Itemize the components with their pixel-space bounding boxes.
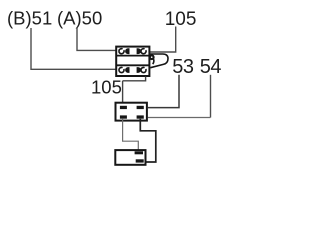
terminal lower xyxy=(136,159,144,162)
wire clip loop on connector right side xyxy=(150,55,154,64)
terminal bottom-left xyxy=(120,115,127,118)
terminal upper xyxy=(135,151,143,154)
wire from relay bottom-left terminal to lower block top terminal xyxy=(123,119,139,152)
terminal pin top-right xyxy=(137,48,141,54)
svg-text:(B)51: (B)51 xyxy=(7,8,52,29)
inner divider upper xyxy=(116,55,150,57)
terminal pin bottom-left xyxy=(125,67,129,73)
svg-text:54: 54 xyxy=(200,56,222,78)
wire leader from label 54 horizontal to relay block xyxy=(148,117,211,119)
wire boot on connector right side xyxy=(150,54,168,68)
wire from relay bottom-right terminal to lower block side terminal xyxy=(140,119,156,162)
wire from (B)51 to connector 105 pin B xyxy=(31,28,116,69)
terminal top-right xyxy=(137,106,144,109)
wire leader from label 105 top to connector right pin xyxy=(150,27,176,53)
inner divider lower xyxy=(116,64,150,66)
terminal pin bottom-right xyxy=(137,67,141,73)
terminal ring top-left xyxy=(119,49,124,54)
terminal top-left xyxy=(120,106,127,109)
wire from connector 105 lower-right pin to label 105 bottom and to junction block xyxy=(123,77,146,81)
connector 105 (main block) xyxy=(116,47,150,76)
terminal ring bottom-left xyxy=(119,67,124,72)
svg-text:105: 105 xyxy=(91,77,122,98)
lower block xyxy=(115,150,145,165)
terminal ring top-right xyxy=(141,49,146,54)
svg-text:(A)50: (A)50 xyxy=(57,8,102,29)
terminal bottom-right xyxy=(137,115,144,118)
wire junction drop to relay block xyxy=(122,81,124,106)
svg-text:105: 105 xyxy=(165,9,197,30)
wire from (A)50 to connector 105 pin A xyxy=(77,28,116,51)
svg-text:53: 53 xyxy=(172,56,194,78)
wire leader from label 54 vertical xyxy=(210,75,212,118)
terminal ring bottom-right xyxy=(141,67,146,72)
wire leader from label 53 to relay block xyxy=(148,75,179,108)
relay block (middle) xyxy=(116,103,147,121)
terminal pin top-left xyxy=(125,48,129,54)
outer case xyxy=(116,47,149,76)
